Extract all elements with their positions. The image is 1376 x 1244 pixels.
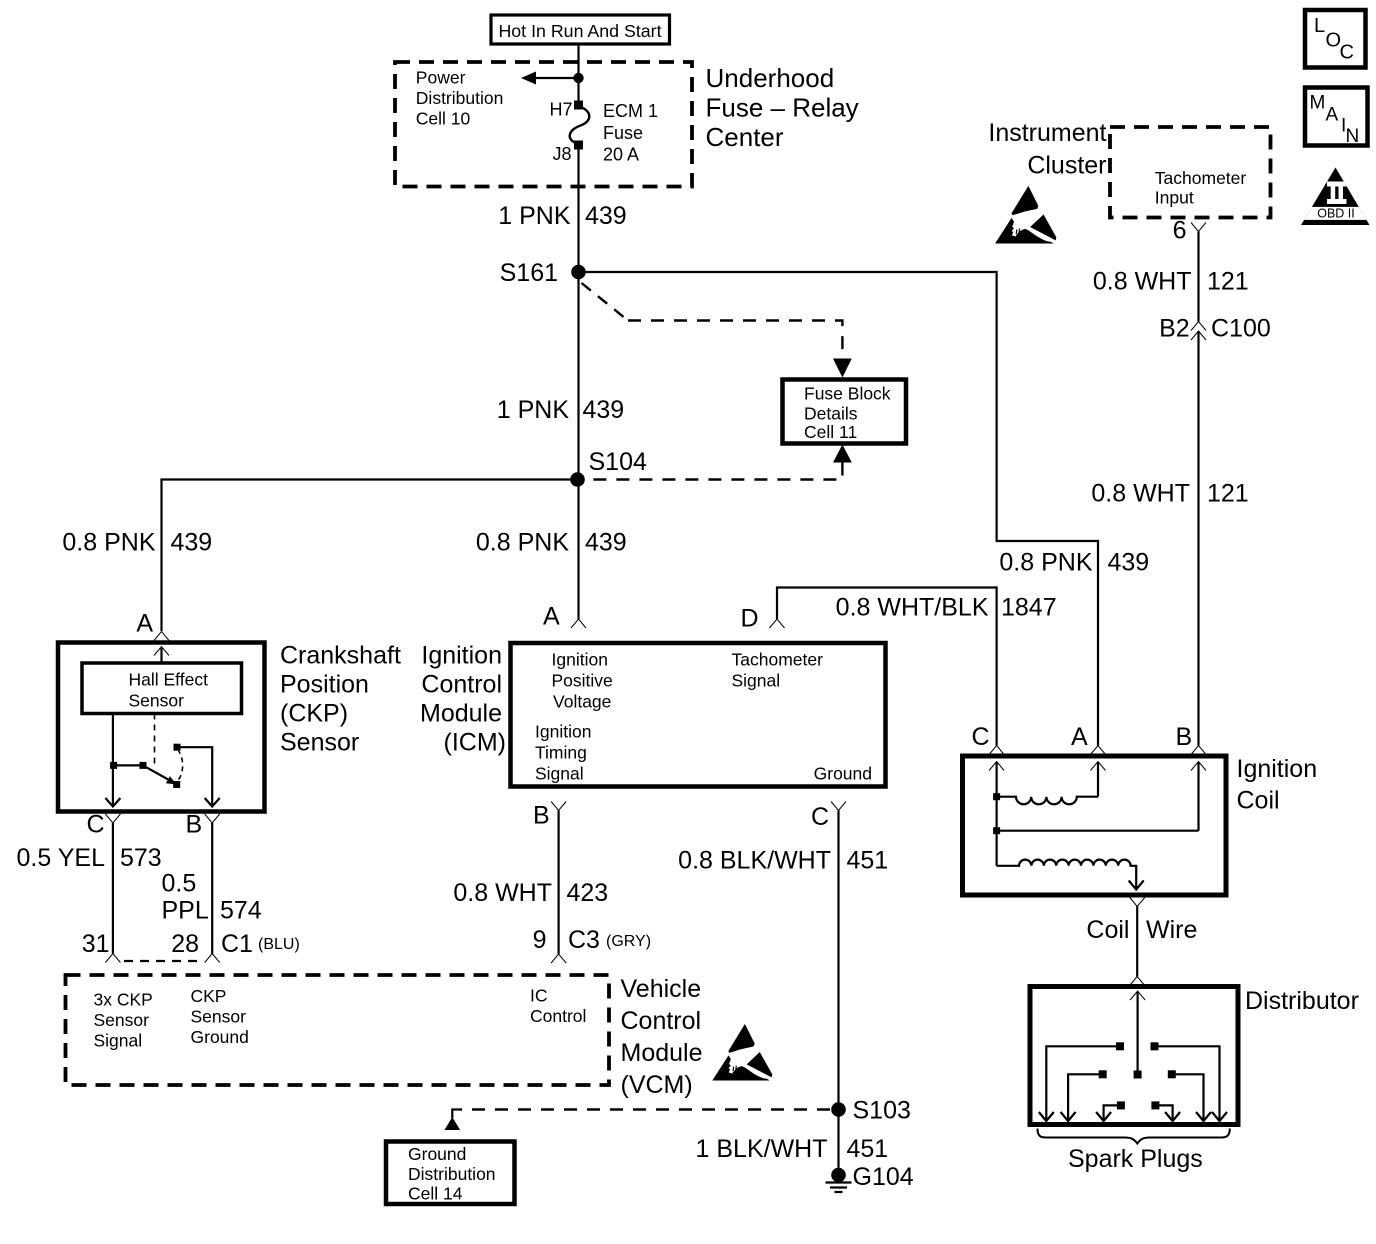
svg-text:H7: H7 — [549, 100, 572, 120]
svg-text:J8: J8 — [552, 144, 571, 164]
svg-text:B: B — [186, 811, 203, 839]
svg-text:Cell 14: Cell 14 — [408, 1184, 463, 1204]
svg-text:(VCM): (VCM) — [621, 1071, 693, 1099]
svg-text:Ground: Ground — [814, 764, 872, 784]
svg-text:Sensor: Sensor — [280, 729, 359, 757]
svg-text:A: A — [1071, 723, 1088, 751]
splice S104 — [570, 472, 585, 487]
svg-text:0.8 PNK: 0.8 PNK — [999, 549, 1092, 577]
rotor center terminal — [1134, 1071, 1142, 1079]
pin C connector at ICM (bottom) — [831, 802, 846, 811]
wire branch from S161 to ignition coil A (1 PNK / 0.8 PNK 439) — [579, 272, 1099, 746]
reference box Fuse Block Details Cell 11 — [783, 380, 907, 444]
cap terminal 1 — [1116, 1042, 1124, 1050]
svg-text:M: M — [1310, 93, 1326, 114]
cap terminal 5 — [1117, 1101, 1125, 1109]
svg-text:Ignition: Ignition — [552, 650, 608, 670]
component Ignition Coil box — [963, 756, 1227, 895]
splice S161 — [571, 265, 586, 280]
dashed reference from S161 to Fuse Block Details — [582, 283, 629, 321]
pin D connector at ICM — [770, 619, 785, 628]
svg-text:PPL: PPL — [162, 897, 209, 925]
switch travel arc (dashed) — [179, 751, 183, 780]
svg-text:C: C — [811, 803, 829, 831]
svg-text:Spark Plugs: Spark Plugs — [1068, 1145, 1203, 1173]
svg-text:C100: C100 — [1211, 315, 1271, 343]
splice S103 — [831, 1102, 846, 1117]
icon ESD warning triangle (VCM) — [713, 1025, 772, 1080]
svg-text:439: 439 — [585, 202, 627, 230]
svg-text:Hall Effect: Hall Effect — [129, 670, 209, 690]
svg-text:Voltage: Voltage — [553, 692, 611, 712]
dashed reference from S103 to Ground Distribution — [460, 1108, 830, 1110]
svg-text:Tachometer: Tachometer — [1155, 168, 1247, 188]
svg-text:C1: C1 — [221, 930, 253, 958]
connector C1 (BLU) dashed link — [124, 960, 202, 962]
arrow to Ground Distribution — [445, 1117, 461, 1130]
svg-text:0.5 YEL: 0.5 YEL — [16, 844, 105, 872]
svg-text:Hot In Run And Start: Hot In Run And Start — [498, 21, 661, 41]
svg-text:A: A — [1326, 105, 1339, 126]
svg-text:Vehicle: Vehicle — [621, 975, 702, 1003]
pin C connector at CKP sensor — [105, 814, 120, 823]
svg-text:(ICM): (ICM) — [444, 729, 506, 757]
pin 6 connector at tachometer input — [1191, 223, 1206, 232]
svg-text:31: 31 — [82, 930, 110, 958]
wire 1 PNK 439 from S161 to S104 — [577, 272, 579, 480]
spark plug wire 5 — [1176, 1074, 1204, 1120]
svg-text:Cell 11: Cell 11 — [804, 422, 857, 442]
pin B connector at ICM (bottom) — [551, 802, 566, 811]
junction primary winding — [993, 793, 1000, 800]
wire 0.8 WHT/BLK 1847 from ICM D to ignition coil C — [777, 588, 997, 746]
dashed reference from S104 to Fuse Block Details — [833, 445, 852, 463]
svg-text:D: D — [741, 605, 759, 633]
Underhood Fuse-Relay Center dashed box — [395, 62, 692, 187]
svg-text:Ignition: Ignition — [421, 642, 502, 670]
svg-text:Signal: Signal — [94, 1031, 143, 1051]
component Crankshaft Position (CKP) Sensor box — [58, 643, 265, 812]
wire switch to pin B (internal) — [177, 747, 212, 805]
svg-text:Position: Position — [280, 671, 369, 699]
svg-text:G104: G104 — [853, 1163, 914, 1191]
pin C connector at ignition coil — [989, 746, 1004, 755]
svg-text:121: 121 — [1207, 268, 1249, 296]
svg-text:1 BLK/WHT: 1 BLK/WHT — [696, 1135, 828, 1163]
svg-text:574: 574 — [220, 897, 262, 925]
svg-text:(GRY): (GRY) — [606, 933, 651, 950]
svg-text:Power: Power — [416, 68, 466, 88]
wire 1 PNK 439 from J8 to S161 — [577, 145, 579, 272]
svg-text:CKP: CKP — [191, 986, 227, 1006]
svg-text:OBD II: OBD II — [1317, 207, 1355, 221]
connector at distributor cap — [1130, 977, 1145, 986]
svg-text:Control: Control — [530, 1006, 586, 1026]
pin A connector at ignition coil — [1091, 746, 1106, 755]
svg-text:Instrument: Instrument — [988, 119, 1106, 147]
switch contacts inside CKP sensor — [110, 762, 117, 769]
wire main feed vertical from Hot box into fuse H7 — [577, 44, 579, 106]
svg-text:Tachometer: Tachometer — [732, 650, 824, 670]
svg-text:9: 9 — [533, 926, 547, 954]
svg-text:Distribution: Distribution — [408, 1164, 496, 1184]
svg-text:0.5: 0.5 — [162, 870, 197, 898]
cap terminal 2 — [1151, 1042, 1159, 1050]
svg-text:121: 121 — [1207, 480, 1249, 508]
coil internal arrow pin B — [1197, 762, 1199, 831]
distributor rotor feed arrow — [1136, 992, 1138, 1071]
spark plug wire 4 — [1159, 1105, 1172, 1120]
svg-text:Cell 10: Cell 10 — [416, 109, 471, 129]
pin 31 at VCM — [105, 954, 120, 963]
wire 1 BLK/WHT 451 from S103 to G104 — [837, 1110, 839, 1176]
svg-text:Module: Module — [621, 1039, 703, 1067]
wire 0.5 PPL 574 from CKP B to VCM 28 — [211, 823, 213, 954]
svg-text:1 PNK: 1 PNK — [498, 202, 571, 230]
svg-text:0.8 PNK: 0.8 PNK — [476, 529, 569, 557]
svg-text:439: 439 — [171, 529, 213, 557]
svg-text:Control: Control — [621, 1007, 702, 1035]
fuse ECM 1 20 A (element between H7 and J8) — [570, 106, 590, 144]
ground G104 — [831, 1168, 846, 1183]
brace Spark Plugs — [1038, 1129, 1230, 1144]
svg-text:439: 439 — [1108, 549, 1150, 577]
wire Coil Wire to distributor — [1136, 907, 1138, 977]
arrow secondary output — [1129, 881, 1144, 890]
wire 0.8 WHT 121 upper segment — [1197, 232, 1199, 322]
component Vehicle Control Module (VCM) dashed box — [66, 975, 610, 1085]
wire branch S104 to CKP sensor A (0.8 PNK 439) — [162, 480, 579, 632]
svg-text:B2: B2 — [1159, 315, 1190, 343]
svg-text:Control: Control — [421, 671, 502, 699]
wire 0.5 YEL 573 from CKP C to VCM 31 — [112, 823, 114, 954]
pin A connector at CKP sensor — [154, 632, 169, 641]
wire branch to Power Distribution (left arrow) — [535, 77, 579, 79]
wire 0.8 BLK/WHT 451 from ICM C to S103 — [837, 811, 839, 1110]
pin 28 at VCM — [205, 954, 220, 963]
svg-text:451: 451 — [847, 847, 889, 875]
svg-text:0.8 WHT: 0.8 WHT — [1093, 268, 1192, 296]
reference box Ground Distribution Cell 14 — [386, 1142, 515, 1205]
svg-text:S103: S103 — [853, 1097, 911, 1125]
svg-text:Coil: Coil — [1086, 916, 1129, 944]
svg-text:Signal: Signal — [732, 671, 781, 691]
svg-text:ECM 1: ECM 1 — [603, 101, 658, 121]
pin B connector at ignition coil — [1191, 746, 1206, 755]
svg-text:Wire: Wire — [1146, 916, 1197, 944]
svg-text:Fuse Block: Fuse Block — [804, 384, 891, 404]
component Distributor box — [1030, 987, 1238, 1125]
svg-text:C3: C3 — [568, 926, 600, 954]
pin A connector at ICM — [571, 619, 586, 628]
coil internal arrow pin C — [995, 762, 997, 866]
pin B connector at CKP sensor — [205, 814, 220, 823]
svg-text:Input: Input — [1155, 188, 1194, 208]
svg-text:A: A — [136, 610, 153, 638]
coil tower connector (bottom) — [1130, 898, 1145, 907]
svg-text:451: 451 — [847, 1135, 889, 1163]
svg-text:0.8 PNK: 0.8 PNK — [62, 529, 155, 557]
svg-text:Coil: Coil — [1237, 787, 1280, 815]
svg-text:20 A: 20 A — [603, 145, 639, 165]
svg-text:S161: S161 — [500, 259, 558, 287]
coil internal arrow pin A — [1097, 762, 1099, 797]
svg-text:6: 6 — [1173, 217, 1187, 245]
svg-text:Distributor: Distributor — [1245, 987, 1359, 1015]
arrow feed into hall sensor — [160, 648, 162, 663]
pin 9 connector C3 (GRY) at VCM — [551, 954, 566, 963]
svg-text:Center: Center — [706, 122, 784, 152]
cap terminal 3 — [1099, 1070, 1107, 1078]
hall effect sensor inner box — [82, 663, 242, 714]
spark plug wire 3 — [1104, 1105, 1117, 1120]
svg-text:Fuse – Relay: Fuse – Relay — [706, 93, 859, 123]
svg-text:Module: Module — [420, 700, 502, 728]
wire 0.8 WHT 423 from ICM B to VCM 9 — [557, 811, 559, 955]
svg-text:1 PNK: 1 PNK — [497, 396, 570, 424]
svg-text:0.8 WHT: 0.8 WHT — [1091, 480, 1190, 508]
svg-text:Timing: Timing — [535, 743, 587, 763]
svg-text:(BLU): (BLU) — [258, 936, 300, 953]
svg-text:Ground: Ground — [191, 1027, 249, 1047]
wire hall sensor output to pin C (internal) — [112, 714, 114, 806]
svg-text:423: 423 — [567, 879, 609, 907]
svg-text:439: 439 — [583, 396, 625, 424]
svg-text:1847: 1847 — [1001, 594, 1057, 622]
svg-text:(CKP): (CKP) — [280, 700, 348, 728]
wire 0.8 PNK 439 from S104 to ICM A — [577, 480, 579, 620]
component Ignition Control Module (ICM) box — [511, 643, 886, 787]
svg-text:L: L — [1314, 15, 1325, 37]
svg-text:B: B — [1176, 723, 1193, 751]
pin H7 — [574, 101, 583, 110]
svg-text:439: 439 — [585, 529, 627, 557]
svg-text:Crankshaft: Crankshaft — [280, 642, 401, 670]
svg-text:Fuse: Fuse — [603, 123, 643, 143]
svg-text:A: A — [543, 603, 560, 631]
power feed label box "Hot In Run And Start" — [491, 15, 670, 44]
svg-text:Cluster: Cluster — [1027, 152, 1106, 180]
spark plug wire 2 — [1068, 1074, 1099, 1120]
switch moving arm (arrow) — [143, 765, 170, 780]
svg-text:Positive: Positive — [552, 671, 613, 691]
svg-text:N: N — [1346, 126, 1360, 147]
svg-text:Underhood: Underhood — [706, 63, 835, 93]
svg-text:573: 573 — [120, 844, 162, 872]
wire 0.8 WHT 121 lower segment to ignition coil B — [1197, 331, 1199, 746]
cap terminal 6 — [1151, 1101, 1159, 1109]
svg-text:Sensor: Sensor — [94, 1010, 150, 1030]
wire coil negative to pin B — [1000, 830, 1199, 832]
spark plug wire 6 — [1158, 1046, 1219, 1120]
cap terminal 4 — [1168, 1070, 1176, 1078]
dashed control line from hall sensor to switch — [154, 714, 156, 768]
svg-text:B: B — [533, 802, 550, 830]
svg-text:Ignition: Ignition — [535, 722, 591, 742]
svg-text:0.8 BLK/WHT: 0.8 BLK/WHT — [678, 847, 831, 875]
svg-text:Sensor: Sensor — [191, 1007, 247, 1027]
svg-text:IC: IC — [530, 986, 548, 1006]
svg-text:0.8 WHT: 0.8 WHT — [453, 879, 552, 907]
junction coil negative — [993, 827, 1000, 834]
Tachometer Input dashed box (instrument cluster) — [1110, 127, 1271, 218]
svg-text:Signal: Signal — [535, 764, 584, 784]
svg-text:S104: S104 — [589, 448, 647, 476]
svg-text:C: C — [972, 723, 990, 751]
svg-text:Ground: Ground — [408, 1144, 466, 1164]
spark plug wire 1 — [1046, 1046, 1116, 1120]
svg-text:Details: Details — [804, 404, 858, 424]
primary winding L1 — [1000, 797, 1098, 805]
svg-text:Sensor: Sensor — [129, 691, 185, 711]
in-line connector C100 pin B2 — [1191, 322, 1206, 331]
icon MAIN box — [1305, 88, 1368, 146]
svg-text:C: C — [87, 811, 105, 839]
node branch dot above fuse — [573, 73, 583, 83]
svg-text:Distribution: Distribution — [416, 88, 504, 108]
svg-text:Ignition: Ignition — [1237, 755, 1318, 783]
pin J8 — [574, 141, 583, 150]
secondary winding L2 — [997, 860, 1137, 889]
svg-text:C: C — [1340, 42, 1354, 64]
icon ESD warning triangle (instrument cluster) — [996, 187, 1056, 243]
icon LOC box — [1305, 10, 1366, 68]
svg-text:3x CKP: 3x CKP — [94, 990, 153, 1010]
svg-text:28: 28 — [171, 930, 199, 958]
svg-text:0.8 WHT/BLK: 0.8 WHT/BLK — [836, 594, 989, 622]
